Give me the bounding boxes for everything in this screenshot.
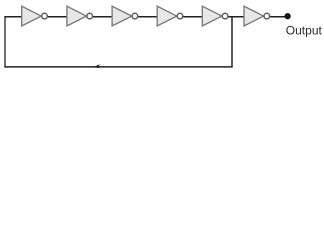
inverter U6	[244, 6, 270, 26]
wire U1 to U2	[47, 16, 68, 18]
wire U6 to output terminal	[270, 16, 286, 18]
inverter U2	[67, 6, 93, 26]
inverter U5	[202, 6, 228, 26]
feedback wire bottom segment	[4, 66, 232, 68]
wire U3 to U4	[137, 16, 157, 18]
wire U5 to U6 with feedback tap	[228, 16, 245, 18]
output terminal dot	[284, 13, 290, 19]
svg-text:Output: Output	[286, 24, 323, 38]
arrowhead on feedback wire pointing left	[93, 64, 100, 68]
wire input segment to inverter U1	[4, 16, 22, 18]
feedback wire left vertical segment	[4, 16, 6, 68]
inverter U3	[112, 6, 138, 26]
wire U4 to U5	[183, 16, 203, 18]
inverter U4	[157, 6, 183, 26]
feedback wire vertical right segment at node between U5 and U6	[231, 16, 233, 67]
inverter U1	[22, 6, 48, 26]
wire U2 to U3	[92, 16, 113, 18]
